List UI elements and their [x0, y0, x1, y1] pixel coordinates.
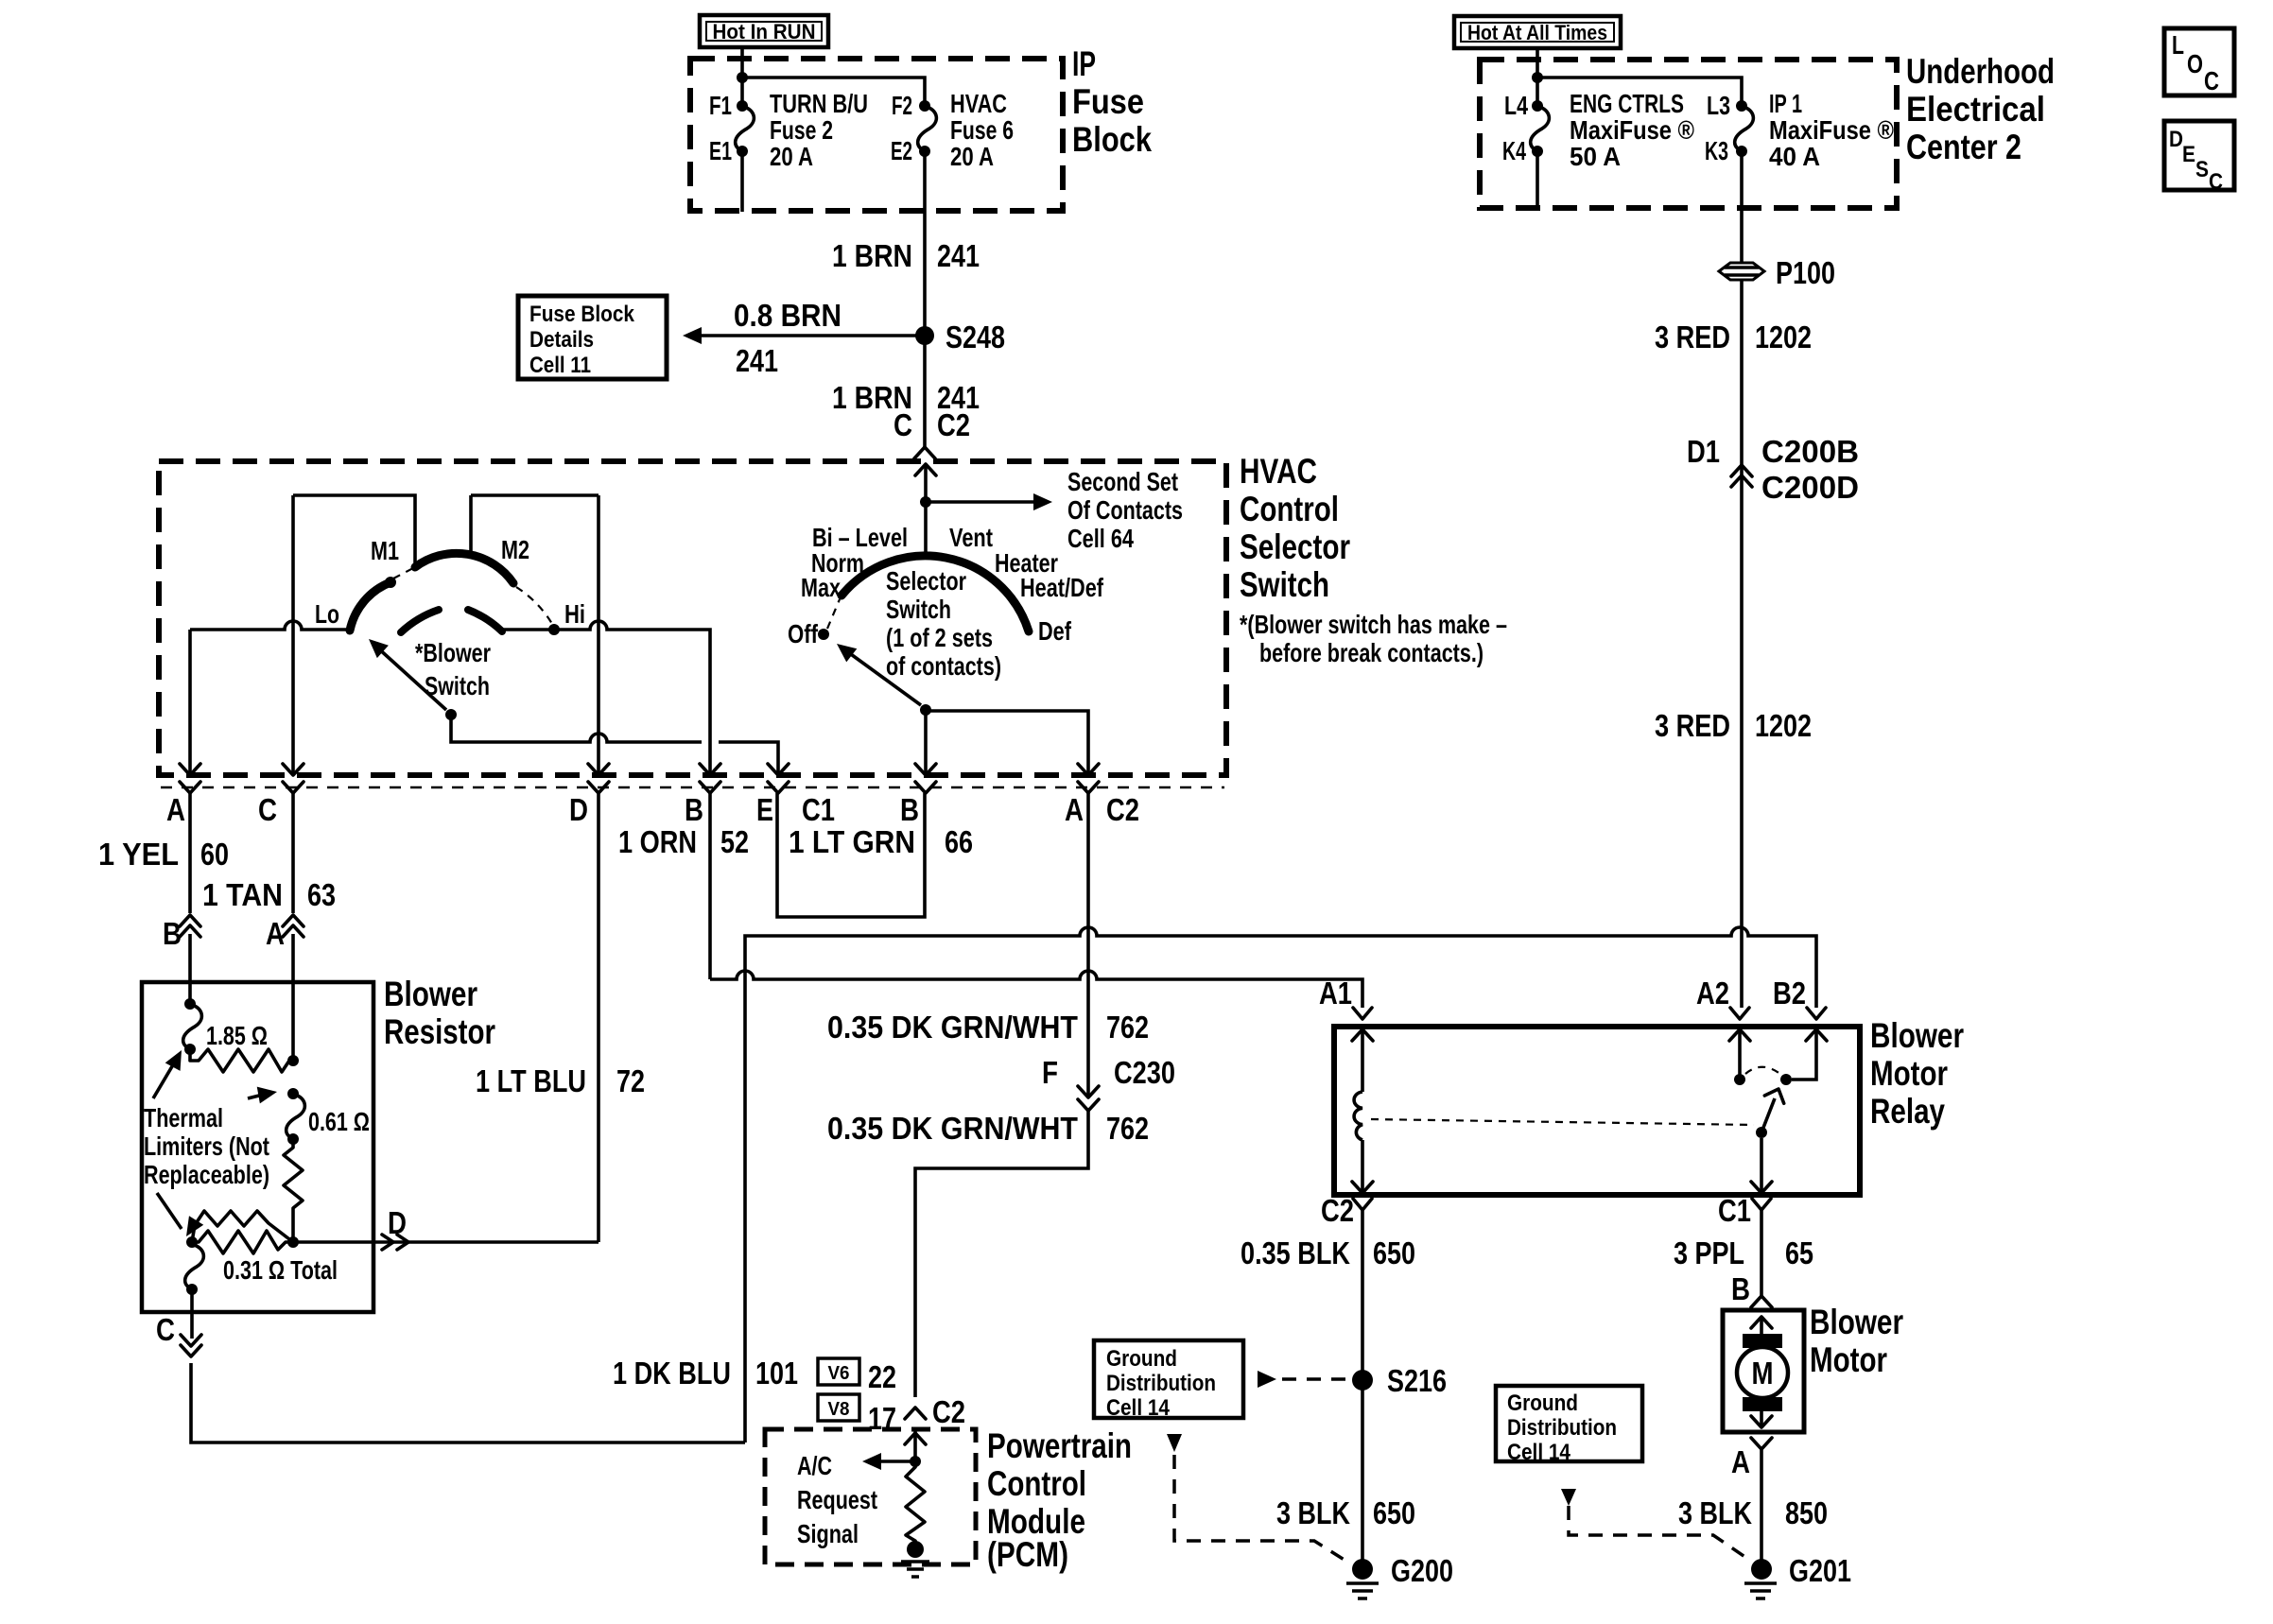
svg-text:3 PPL: 3 PPL: [1674, 1235, 1744, 1270]
svg-text:C1: C1: [802, 792, 835, 827]
svg-text:60: 60: [200, 837, 229, 872]
svg-text:G201: G201: [1789, 1553, 1851, 1588]
svg-text:C2: C2: [932, 1394, 965, 1429]
svg-text:Ground: Ground: [1507, 1391, 1578, 1416]
svg-text:0.61 Ω: 0.61 Ω: [308, 1107, 370, 1136]
svg-text:D: D: [569, 792, 588, 827]
svg-text:Details: Details: [529, 327, 594, 353]
svg-text:Cell 11: Cell 11: [529, 353, 591, 378]
svg-text:0.35 DK GRN/WHT: 0.35 DK GRN/WHT: [827, 1010, 1078, 1045]
svg-text:66: 66: [945, 824, 973, 859]
svg-text:Hot At All Times: Hot At All Times: [1467, 21, 1607, 44]
svg-text:Request: Request: [797, 1485, 877, 1514]
svg-text:Off: Off: [788, 619, 819, 648]
svg-text:1 ORN: 1 ORN: [618, 824, 697, 859]
svg-text:Resistor: Resistor: [384, 1012, 495, 1051]
svg-text:M: M: [1752, 1356, 1774, 1391]
svg-text:Hi: Hi: [564, 599, 585, 629]
svg-text:L: L: [2172, 30, 2184, 60]
svg-text:Selector: Selector: [886, 566, 966, 596]
svg-text:1.85 Ω: 1.85 Ω: [206, 1021, 268, 1050]
svg-text:Heat/Def: Heat/Def: [1020, 573, 1104, 602]
svg-text:S248: S248: [946, 320, 1005, 354]
svg-text:A/C: A/C: [797, 1451, 832, 1480]
svg-text:M1: M1: [371, 536, 399, 565]
svg-text:3 BLK: 3 BLK: [1678, 1495, 1752, 1530]
svg-text:1 DK BLU: 1 DK BLU: [613, 1356, 731, 1391]
svg-text:762: 762: [1106, 1111, 1149, 1146]
svg-text:Second Set: Second Set: [1067, 467, 1178, 496]
svg-text:C1: C1: [1718, 1193, 1751, 1228]
svg-text:3 BLK: 3 BLK: [1276, 1495, 1350, 1530]
svg-text:Blower: Blower: [1810, 1303, 1903, 1341]
svg-text:D: D: [388, 1205, 407, 1240]
svg-text:K3: K3: [1705, 136, 1728, 165]
svg-text:A: A: [1731, 1444, 1750, 1479]
svg-text:Fuse 6: Fuse 6: [950, 115, 1014, 145]
svg-text:MaxiFuse ®: MaxiFuse ®: [1769, 115, 1894, 145]
svg-text:A: A: [1065, 792, 1084, 827]
svg-text:Motor: Motor: [1810, 1340, 1887, 1379]
svg-text:D1: D1: [1687, 434, 1720, 469]
svg-text:1202: 1202: [1755, 320, 1812, 354]
svg-text:20 A: 20 A: [770, 142, 813, 171]
svg-text:C2: C2: [1321, 1193, 1354, 1228]
svg-text:1 LT BLU: 1 LT BLU: [476, 1063, 586, 1098]
svg-text:Vent: Vent: [949, 523, 993, 552]
svg-text:65: 65: [1785, 1235, 1813, 1270]
svg-text:Block: Block: [1072, 120, 1152, 159]
svg-text:Distribution: Distribution: [1507, 1415, 1617, 1441]
svg-text:3 RED: 3 RED: [1655, 708, 1730, 743]
svg-text:B2: B2: [1773, 976, 1806, 1011]
svg-text:E: E: [756, 792, 773, 827]
svg-text:650: 650: [1373, 1495, 1415, 1530]
svg-text:MaxiFuse ®: MaxiFuse ®: [1570, 115, 1694, 145]
svg-text:C: C: [2204, 66, 2219, 95]
svg-text:(PCM): (PCM): [987, 1535, 1068, 1574]
svg-text:of contacts): of contacts): [886, 651, 1001, 681]
svg-text:*(Blower switch has make –: *(Blower switch has make –: [1240, 610, 1507, 639]
svg-text:0.31 Ω Total: 0.31 Ω Total: [223, 1255, 338, 1285]
svg-text:Switch: Switch: [886, 595, 951, 624]
svg-text:762: 762: [1106, 1010, 1149, 1045]
svg-text:O: O: [2187, 49, 2203, 78]
svg-text:Signal: Signal: [797, 1519, 859, 1548]
svg-text:C200D: C200D: [1761, 470, 1859, 505]
svg-text:IP 1: IP 1: [1769, 89, 1802, 118]
svg-text:V8: V8: [828, 1399, 850, 1420]
svg-text:0.35 BLK: 0.35 BLK: [1241, 1235, 1350, 1270]
svg-text:L4: L4: [1504, 91, 1528, 120]
svg-text:Ground: Ground: [1106, 1346, 1177, 1372]
svg-text:72: 72: [616, 1063, 645, 1098]
svg-text:HVAC: HVAC: [1240, 452, 1317, 491]
svg-text:241: 241: [736, 343, 778, 378]
svg-text:63: 63: [307, 877, 336, 912]
svg-text:Underhood: Underhood: [1906, 52, 2055, 91]
svg-text:Switch: Switch: [425, 671, 490, 700]
svg-text:Relay: Relay: [1870, 1092, 1945, 1131]
svg-text:B: B: [1731, 1271, 1750, 1306]
svg-text:Powertrain: Powertrain: [987, 1426, 1132, 1465]
svg-text:Motor: Motor: [1870, 1054, 1948, 1093]
svg-text:E1: E1: [709, 136, 732, 165]
svg-text:C200B: C200B: [1761, 434, 1859, 469]
svg-text:850: 850: [1785, 1495, 1828, 1530]
svg-text:before break contacts.): before break contacts.): [1259, 638, 1484, 667]
svg-text:Cell 14: Cell 14: [1507, 1440, 1571, 1465]
svg-text:1 LT GRN: 1 LT GRN: [789, 824, 915, 859]
svg-text:40 A: 40 A: [1769, 142, 1820, 171]
svg-text:Lo: Lo: [315, 599, 339, 629]
svg-text:B: B: [163, 916, 182, 951]
svg-text:50 A: 50 A: [1570, 142, 1621, 171]
svg-text:C: C: [156, 1312, 175, 1347]
svg-text:*Blower: *Blower: [415, 638, 491, 667]
svg-text:C: C: [258, 792, 277, 827]
svg-text:E: E: [2182, 142, 2195, 167]
svg-text:A2: A2: [1696, 976, 1729, 1011]
svg-text:Control: Control: [987, 1464, 1086, 1503]
svg-text:Hot In RUN: Hot In RUN: [713, 20, 816, 43]
svg-text:C: C: [2209, 169, 2223, 195]
svg-text:Electrical: Electrical: [1906, 90, 2045, 129]
svg-text:K4: K4: [1502, 136, 1526, 165]
svg-text:F1: F1: [709, 91, 732, 120]
svg-text:D: D: [2169, 127, 2183, 152]
svg-text:A: A: [266, 916, 285, 951]
svg-text:Control: Control: [1240, 490, 1339, 528]
svg-text:C2: C2: [937, 407, 970, 442]
svg-text:B: B: [685, 792, 703, 827]
svg-text:S216: S216: [1387, 1363, 1447, 1398]
svg-text:1 TAN: 1 TAN: [202, 877, 283, 912]
svg-text:Thermal: Thermal: [144, 1103, 223, 1132]
svg-text:A: A: [166, 792, 185, 827]
svg-text:22: 22: [868, 1359, 896, 1394]
svg-text:1 BRN: 1 BRN: [832, 238, 912, 273]
svg-text:M2: M2: [501, 535, 529, 564]
svg-text:Cell 64: Cell 64: [1067, 524, 1134, 553]
svg-text:ENG CTRLS: ENG CTRLS: [1570, 89, 1684, 118]
svg-text:C: C: [894, 407, 912, 442]
svg-text:F: F: [1042, 1055, 1058, 1090]
svg-text:Switch: Switch: [1240, 565, 1329, 604]
svg-text:C2: C2: [1106, 792, 1139, 827]
svg-text:650: 650: [1373, 1235, 1415, 1270]
svg-text:Of Contacts: Of Contacts: [1067, 495, 1183, 525]
svg-text:V6: V6: [828, 1363, 850, 1384]
svg-text:3 RED: 3 RED: [1655, 320, 1730, 354]
svg-text:Max: Max: [801, 573, 841, 602]
svg-text:241: 241: [937, 238, 980, 273]
svg-text:(1 of 2 sets: (1 of 2 sets: [886, 623, 993, 652]
svg-text:Center 2: Center 2: [1906, 128, 2021, 166]
svg-text:52: 52: [720, 824, 749, 859]
svg-text:20 A: 20 A: [950, 142, 994, 171]
svg-text:P100: P100: [1776, 255, 1835, 290]
svg-text:S: S: [2195, 157, 2209, 182]
svg-text:L3: L3: [1707, 91, 1730, 120]
svg-text:Fuse 2: Fuse 2: [770, 115, 833, 145]
svg-text:Blower: Blower: [384, 975, 477, 1013]
svg-text:Limiters (Not: Limiters (Not: [144, 1132, 269, 1161]
svg-text:0.8 BRN: 0.8 BRN: [734, 298, 842, 333]
svg-text:E2: E2: [891, 136, 912, 165]
svg-text:Replaceable): Replaceable): [144, 1160, 269, 1189]
svg-text:Fuse: Fuse: [1072, 82, 1144, 121]
svg-text:C230: C230: [1114, 1055, 1175, 1090]
svg-text:101: 101: [755, 1356, 798, 1391]
svg-text:A1: A1: [1319, 976, 1352, 1011]
svg-text:Blower: Blower: [1870, 1016, 1964, 1055]
svg-text:IP: IP: [1072, 44, 1096, 83]
svg-text:Distribution: Distribution: [1106, 1371, 1216, 1396]
svg-text:Def: Def: [1038, 616, 1072, 646]
svg-text:1202: 1202: [1755, 708, 1812, 743]
svg-text:TURN B/U: TURN B/U: [770, 89, 868, 118]
svg-text:F2: F2: [892, 91, 912, 120]
svg-text:HVAC: HVAC: [950, 89, 1007, 118]
svg-text:B: B: [900, 792, 919, 827]
svg-text:Selector: Selector: [1240, 527, 1350, 566]
svg-text:Cell 14: Cell 14: [1106, 1395, 1171, 1421]
svg-text:Fuse Block: Fuse Block: [529, 302, 635, 327]
svg-text:G200: G200: [1391, 1553, 1453, 1588]
svg-text:1 YEL: 1 YEL: [98, 837, 179, 872]
svg-text:0.35 DK GRN/WHT: 0.35 DK GRN/WHT: [827, 1111, 1078, 1146]
